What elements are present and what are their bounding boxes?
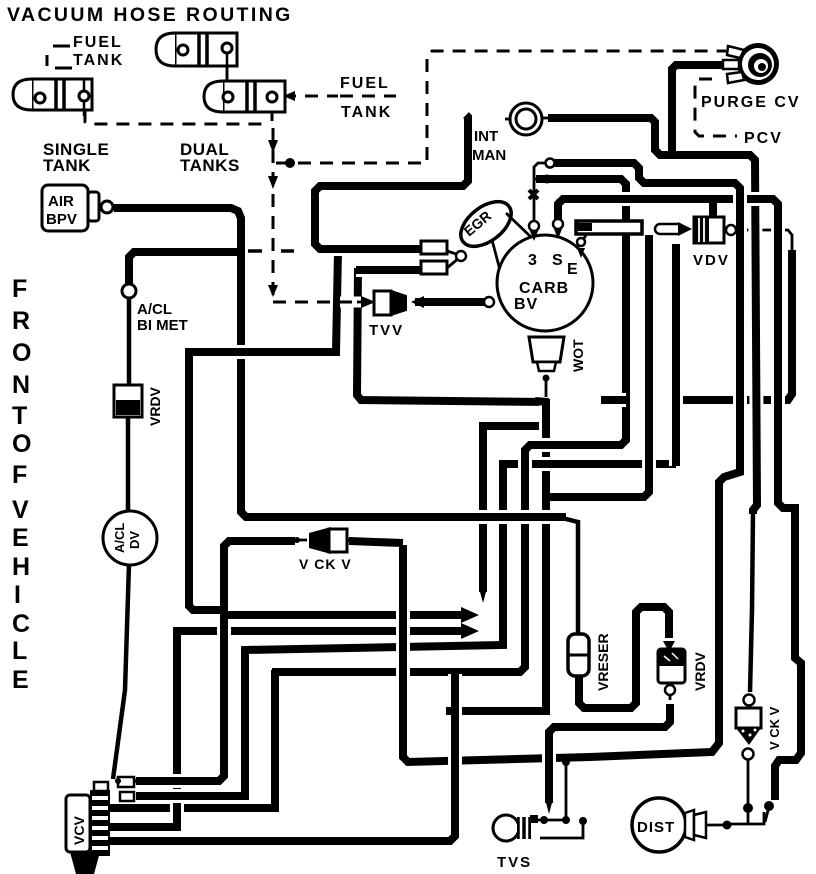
wire: VRESER feed thin hook and riser x=578 bbox=[562, 518, 578, 636]
wire: VRESER bottom to VRDV-2 loop and arrow into VRDV-2 bbox=[579, 607, 669, 708]
VCK V-1 component bbox=[294, 527, 360, 554]
dashed: tank3 right to FUEL TANK label bbox=[283, 95, 338, 98]
svg-text:DIST: DIST bbox=[637, 819, 675, 836]
svg-text:CARB: CARB bbox=[519, 280, 569, 297]
wire: WOT net vertical x=547 down to y=711 then left to x=455 bbox=[456, 399, 546, 711]
svg-text:INT: INT bbox=[474, 128, 498, 145]
svg-text:TANK: TANK bbox=[341, 104, 392, 121]
svg-text:PCV: PCV bbox=[744, 130, 783, 147]
dashed: PCV label bracket bbox=[695, 79, 737, 136]
wire: A/CL DV down to VCV top bbox=[113, 564, 129, 779]
svg-text:VACUUM HOSE ROUTING: VACUUM HOSE ROUTING bbox=[7, 4, 293, 26]
svg-text:F: F bbox=[12, 461, 27, 489]
svg-text:O: O bbox=[12, 339, 31, 367]
CARB BV circle bbox=[484, 199, 593, 331]
wire: AIR BPV hose y=208 and riser x=241 down to y=517 corner bbox=[114, 208, 241, 505]
wire: PCV valve hose from valve left down x=672 bbox=[672, 65, 724, 157]
svg-text:A/CL: A/CL bbox=[112, 523, 127, 553]
label: FRONT OF VEHICLE bbox=[12, 275, 31, 694]
svg-text:VCV: VCV bbox=[71, 816, 87, 845]
VRESER component bbox=[568, 634, 589, 676]
VRDV-1 component bbox=[114, 385, 142, 417]
VDV component bbox=[694, 217, 724, 243]
svg-text:PURGE CV: PURGE CV bbox=[701, 94, 801, 111]
TVS component bbox=[493, 815, 538, 841]
wire: VDV right thin line to x=792 drop and y=400 left cap bbox=[736, 230, 792, 394]
wire: y=517 hose from AIR BPV riser corner to VRESER feed hook bbox=[241, 500, 566, 517]
fuel tank symbol 2 (dual tanks top) bbox=[156, 33, 237, 92]
wire: A/CL BI MET hose up from circle and right y=252 bbox=[129, 252, 237, 286]
svg-text:TVV: TVV bbox=[369, 322, 404, 339]
svg-text:TVS: TVS bbox=[497, 854, 532, 871]
svg-text:TANK: TANK bbox=[73, 52, 124, 69]
svg-text:TANKS: TANKS bbox=[180, 156, 240, 175]
wire: INT MAN hoses merge y=155 and PCV drop x=757 bbox=[543, 118, 757, 514]
wire: TVV output hose to carb BV bbox=[415, 295, 484, 309]
svg-text:MAN: MAN bbox=[472, 147, 506, 164]
wire: TVS thin hoses and junction dots bbox=[533, 819, 567, 822]
wire: EGR-B riser x=358 and y=400 hose to WOT line bbox=[357, 268, 549, 402]
wire: TVS riser thin x=566 bbox=[565, 757, 568, 820]
svg-text:WOT: WOT bbox=[570, 339, 586, 372]
fuel tank symbol 1 (single tank) bbox=[13, 79, 92, 116]
wire: C-line x=483 from WOT line with tapered lower tip bbox=[483, 426, 551, 592]
svg-text:BI MET: BI MET bbox=[137, 317, 188, 334]
wire: PCV line thin continuation to VCK V-2 top bbox=[750, 512, 753, 692]
wire: D-line left stub at y=400 bbox=[601, 393, 626, 407]
wire: VCV nipple4 hose via H2 line (left riser x=177, y=631 horizontal) bbox=[108, 631, 470, 827]
wire: DIST thin line y=824 bbox=[731, 812, 764, 824]
svg-text:H: H bbox=[12, 553, 30, 581]
wire: A/CL line down through VRDV to A/CL DV circle bbox=[127, 297, 132, 387]
A/CL BI MET circle bbox=[122, 284, 136, 298]
wire: tank2 to tank3 connector bbox=[226, 66, 229, 83]
wire: x=455 drop from H4 to VCV bottom hose y=841 bbox=[108, 674, 455, 841]
wire: VCV nipple3 hose tail from H4 corner bbox=[108, 674, 275, 808]
wire: INT MAN left hose down x=468/315 to EGR connector line y=249 bbox=[315, 115, 468, 249]
wire: x=676 riser from E-line up to E-tube area bbox=[669, 244, 683, 466]
svg-text:FUEL: FUEL bbox=[340, 75, 390, 92]
wire: VCKV-1 loop left x=224 down to VCV nipple1 bbox=[136, 541, 295, 781]
junction patches bbox=[224, 611, 238, 619]
wire: DIST to bellows nipple bbox=[706, 824, 731, 827]
EGR oval with connectors bbox=[421, 193, 532, 274]
svg-text:VDV: VDV bbox=[693, 252, 730, 269]
wire: VCKV-1 bridge right segment bbox=[349, 541, 403, 543]
svg-text:V CK V: V CK V bbox=[299, 556, 352, 572]
svg-text:TANK: TANK bbox=[43, 156, 91, 175]
AIR BPV box bbox=[42, 185, 113, 231]
svg-text:3: 3 bbox=[528, 252, 537, 269]
svg-text:V CK V: V CK V bbox=[767, 706, 782, 750]
A/CL DV circle bbox=[103, 511, 157, 565]
INT MAN port double circle bbox=[505, 103, 542, 135]
VRDV-2 component bbox=[658, 649, 685, 695]
svg-text:F: F bbox=[12, 275, 27, 303]
dashed: FUEL TANK label box top-left bbox=[47, 46, 72, 68]
wire: D-line branch y=179 down x=626, across y=445, down x=525, H4 y=672 bbox=[272, 179, 626, 672]
svg-text:DV: DV bbox=[127, 531, 142, 549]
wire: VCK V-2 bottom thin line to DIST junction dot bbox=[747, 760, 750, 824]
wire: E-line y=464 with left drop x=503 to H3 y=650 and VCV nipple2 bbox=[136, 464, 676, 796]
dashed: under FUEL label continuing right then up at x=427 to top bbox=[340, 95, 396, 98]
dashed: horizontal y=163 from x=273 to x=427 bbox=[276, 162, 427, 165]
wire: VDV left leader capsule with arrow bbox=[655, 224, 683, 234]
wire: H1 line from VCKV-1 loop-left to arrow (y=615) bbox=[224, 608, 470, 622]
svg-text:T: T bbox=[12, 402, 27, 430]
svg-text:O: O bbox=[12, 430, 31, 458]
svg-text:VRDV: VRDV bbox=[692, 651, 708, 691]
wire: carb port3 net y=163 y=183 down x=740 jog x=719 line P to VCKV-1 loop right bbox=[403, 163, 740, 762]
DIST component bbox=[632, 798, 706, 852]
svg-text:A/CL: A/CL bbox=[137, 301, 172, 318]
dashed: vertical x=273 from y=121 down to y=296 with arrows bbox=[272, 128, 275, 296]
wire: EGR connector line y=270 bbox=[356, 263, 421, 277]
dashed fuel tank vertical to top right purge bbox=[271, 112, 274, 121]
svg-text:C: C bbox=[12, 610, 30, 638]
svg-text:R: R bbox=[12, 307, 30, 335]
dashed: small horizontal dashes at y=251 bbox=[248, 249, 294, 253]
svg-text:E: E bbox=[12, 666, 29, 694]
fuel tank symbol 3 (dual tanks bottom) bbox=[204, 81, 285, 112]
svg-text:BV: BV bbox=[514, 296, 538, 313]
svg-text:I: I bbox=[14, 581, 21, 609]
dashed fuel tank line: left tank bottom L bbox=[85, 110, 270, 124]
wire: E-tube outline from carb E to VDV leader bbox=[580, 230, 589, 245]
svg-text:E: E bbox=[12, 524, 29, 552]
svg-text:L: L bbox=[12, 637, 27, 665]
svg-text:VRDV: VRDV bbox=[147, 386, 163, 426]
svg-text:AIR: AIR bbox=[48, 193, 74, 210]
svg-text:FUEL: FUEL bbox=[73, 34, 123, 51]
svg-text:V: V bbox=[12, 496, 29, 524]
PURGE CV valve bbox=[723, 43, 779, 85]
dashed: y=302 right to TVV arrow bbox=[340, 297, 365, 308]
TVV component bbox=[357, 291, 406, 315]
VCV component bbox=[66, 777, 144, 874]
VCK V-2 component bbox=[736, 695, 761, 760]
wire: VRDV-2 bottom drop x=549 to TVS area with taper bbox=[669, 694, 672, 700]
svg-text:VRESER: VRESER bbox=[595, 633, 611, 691]
svg-text:E: E bbox=[567, 261, 578, 278]
WOT component bbox=[529, 337, 564, 397]
wire: S-net stub down into VDV top bbox=[709, 199, 717, 218]
svg-text:BPV: BPV bbox=[46, 211, 77, 228]
wire: y=497 hose from WOT junction to x=649 riser up to E-tube bbox=[549, 235, 649, 497]
svg-text:S: S bbox=[552, 252, 563, 269]
wire: thin link from dot to DIST line bbox=[765, 803, 770, 822]
wire: EGR-A branch x=336 down, y=352 left, x=189 down to VCKV-1 loop bbox=[189, 251, 338, 610]
svg-text:N: N bbox=[12, 371, 30, 399]
wire: S-port net y=199 right, down x=778 with jogs to DIST junction bbox=[558, 199, 801, 800]
